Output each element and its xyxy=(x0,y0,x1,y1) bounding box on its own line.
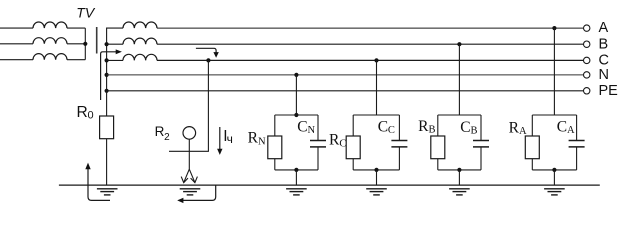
node primary star point xyxy=(83,42,87,46)
transformer TV core bar xyxy=(96,27,98,54)
ground under person feet xyxy=(180,188,201,190)
wire primary star bus xyxy=(84,28,86,60)
ground R0 earthing xyxy=(97,188,118,190)
wire line B xyxy=(157,43,583,45)
wire group C top bar xyxy=(353,114,399,116)
node group B bottom junction xyxy=(457,168,461,172)
terminal B xyxy=(584,41,590,47)
resistor RC xyxy=(352,115,354,136)
wire bus to winding B xyxy=(107,43,123,45)
wire group B bottom bar xyxy=(438,169,481,171)
transformer TV primary winding phase 3 xyxy=(0,59,33,61)
node bus-B junction xyxy=(105,42,109,46)
wire neutral to R0 xyxy=(106,91,108,116)
svg-text:A: A xyxy=(567,125,575,136)
terminal N xyxy=(584,72,590,78)
person body wire xyxy=(188,139,190,169)
arrow current return into winding xyxy=(101,52,117,100)
arrow earth current up to R0 ground xyxy=(88,169,110,201)
wire tap down group B xyxy=(458,44,460,115)
wire group N to ground xyxy=(295,170,297,185)
resistor RN xyxy=(274,115,276,136)
node tap on line for group B xyxy=(457,42,461,46)
capacitor CB xyxy=(480,115,482,141)
wire group N top bar xyxy=(275,114,318,116)
transformer TV secondary winding C xyxy=(123,54,157,60)
svg-text:N: N xyxy=(599,67,609,83)
transformer TV primary winding phase 1 xyxy=(0,27,33,29)
ground group C xyxy=(366,188,387,190)
wire line C down to person hand xyxy=(207,60,209,151)
svg-text:R: R xyxy=(248,130,259,147)
transformer TV secondary winding A xyxy=(123,22,157,28)
resistor R0 xyxy=(100,116,114,139)
svg-text:C: C xyxy=(378,119,388,136)
svg-text:C: C xyxy=(460,119,470,136)
ground group A xyxy=(544,188,565,190)
person head circle xyxy=(183,127,196,140)
node group A bottom junction xyxy=(552,168,556,172)
svg-text:C: C xyxy=(557,118,567,135)
svg-text:0: 0 xyxy=(88,110,94,122)
svg-text:PE: PE xyxy=(599,83,619,99)
node group C bottom junction xyxy=(374,168,378,172)
svg-text:R: R xyxy=(77,104,88,121)
resistor RA xyxy=(531,115,533,136)
svg-text:R: R xyxy=(329,132,340,149)
node tap on line for group C xyxy=(374,58,378,62)
wire group A to ground xyxy=(553,170,555,185)
capacitor CC xyxy=(398,115,400,141)
svg-text:C: C xyxy=(339,138,346,149)
arrow fault current into line C xyxy=(196,48,216,52)
svg-text:A: A xyxy=(599,20,609,36)
node group N top junction xyxy=(294,113,298,117)
node group N bottom junction xyxy=(294,168,298,172)
wire group C to ground xyxy=(376,170,378,185)
transformer TV secondary winding B xyxy=(123,38,157,44)
node tap on line C xyxy=(206,58,210,62)
wire group A top bar xyxy=(532,114,576,116)
wire group B to ground xyxy=(458,170,460,185)
wire tap down group A xyxy=(553,28,555,115)
wire line C xyxy=(157,59,583,61)
wire bus to winding C xyxy=(107,59,123,61)
wire line N xyxy=(107,74,584,76)
person legs with current arrows xyxy=(184,169,190,182)
wire line A xyxy=(157,27,583,29)
svg-text:A: A xyxy=(519,126,527,137)
svg-text:C: C xyxy=(388,125,395,136)
svg-text:B: B xyxy=(429,125,436,136)
wire secondary neutral bus xyxy=(107,28,123,91)
svg-text:R: R xyxy=(418,118,429,135)
terminal A xyxy=(584,25,590,31)
resistor RB xyxy=(437,115,439,136)
svg-text:C: C xyxy=(297,119,307,136)
terminal C xyxy=(584,57,590,63)
wire line PE xyxy=(107,90,584,92)
node bus-N junction xyxy=(105,73,109,77)
svg-text:2: 2 xyxy=(164,132,170,143)
svg-text:B: B xyxy=(599,36,609,52)
wire group C bottom bar xyxy=(353,169,399,171)
svg-text:R: R xyxy=(155,124,165,139)
wire group A bottom bar xyxy=(532,169,576,171)
svg-text:R: R xyxy=(509,119,520,136)
svg-text:ч: ч xyxy=(227,132,233,146)
node tap on line for group N xyxy=(294,73,298,77)
wire group B top bar xyxy=(438,114,481,116)
wire earth surface line xyxy=(59,184,600,186)
node tap on line for group A xyxy=(552,26,556,30)
svg-text:B: B xyxy=(471,126,478,137)
arrow earth current left from person ground xyxy=(179,185,216,200)
capacitor CA xyxy=(576,115,578,141)
wire tap down group N xyxy=(295,75,297,115)
svg-text:N: N xyxy=(258,136,266,147)
arrow Ich current down xyxy=(219,127,221,150)
svg-text:N: N xyxy=(308,125,316,136)
person arms wire xyxy=(169,150,209,152)
ground group N xyxy=(286,188,307,190)
wire R0 to ground xyxy=(106,139,108,185)
node bus-C junction xyxy=(105,58,109,62)
capacitor CN xyxy=(317,115,319,141)
terminal PE xyxy=(584,88,590,94)
transformer TV primary winding phase 2 xyxy=(0,43,33,45)
svg-text:TV: TV xyxy=(76,5,96,21)
wire tap down group C xyxy=(376,60,378,115)
ground group B xyxy=(449,188,470,190)
wire group N bottom bar xyxy=(275,169,318,171)
node bus-PE junction xyxy=(105,89,109,93)
